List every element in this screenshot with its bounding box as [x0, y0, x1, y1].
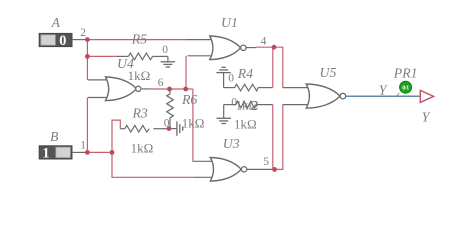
svg-text:Y: Y	[422, 110, 431, 125]
svg-text:R3: R3	[132, 105, 148, 120]
svg-text:6: 6	[158, 77, 164, 89]
node 6 junction U1 branch	[183, 87, 188, 92]
input switch A	[39, 33, 85, 49]
value 1k ohm R5	[128, 68, 151, 83]
label R2 overlapping	[251, 98, 258, 113]
wire B junction up to R3 jog	[112, 120, 120, 152]
wire node 5 left vertical to R2	[272, 105, 274, 170]
wire B junction down to U3 input	[112, 152, 194, 177]
op: NOR gate U5	[283, 84, 346, 108]
value 1k ohm R3	[131, 141, 154, 156]
probe arrow triangle	[420, 90, 433, 102]
svg-text:0: 0	[162, 44, 168, 56]
wire node 4 jog to U5 input	[274, 47, 283, 87]
label Y below probe	[422, 110, 431, 125]
ground net label 0	[164, 117, 170, 129]
label U3	[223, 136, 240, 151]
node 6 junction R6	[167, 87, 172, 92]
svg-text:U3: U3	[223, 136, 240, 151]
resistor R5	[117, 53, 168, 60]
svg-text:0: 0	[59, 33, 66, 49]
op: NOR gate U4	[88, 77, 151, 101]
svg-text:1kΩ: 1kΩ	[182, 115, 205, 130]
wire node 4	[256, 46, 275, 48]
value 1k ohm R2	[234, 117, 257, 132]
wire node 2 vertical to U4 input	[86, 40, 88, 80]
svg-text:1kΩ: 1kΩ	[131, 141, 154, 156]
wire B run to junction	[85, 151, 112, 153]
svg-text:1: 1	[80, 139, 86, 151]
node 2 junction A	[85, 37, 90, 42]
label A	[51, 15, 61, 30]
op: NOR gate U1	[186, 36, 256, 60]
svg-text:R5: R5	[131, 32, 147, 47]
node 4 junction	[272, 45, 277, 50]
ground for R5	[161, 56, 175, 67]
svg-text:1kΩ: 1kΩ	[234, 117, 257, 132]
svg-text:PR1: PR1	[393, 66, 418, 81]
wire node 2 horizontal to U1	[87, 39, 186, 41]
svg-text:R6: R6	[181, 92, 197, 107]
node 2 junction B	[85, 54, 90, 59]
svg-text:R4: R4	[237, 66, 253, 81]
label R6	[181, 92, 197, 107]
node label 4	[261, 36, 267, 48]
node 1 junction A	[85, 150, 90, 155]
svg-text:B: B	[50, 129, 59, 144]
svg-text:1: 1	[42, 146, 49, 162]
wire node 6 from U4 output	[151, 88, 193, 90]
wire node 6 down branch to U3	[193, 89, 194, 161]
svg-text:2: 2	[80, 27, 86, 39]
wire node 4 left vertical to R4	[272, 47, 274, 87]
node label 2	[80, 27, 86, 39]
op: NOR gate U3	[194, 158, 272, 182]
value 1k ohm R4 overlapping	[236, 97, 259, 112]
node label 5	[263, 156, 269, 168]
svg-text:0: 0	[164, 117, 170, 129]
junction R3 R6 ground	[167, 126, 172, 131]
wire node 2 branch to R5	[87, 55, 117, 57]
label R5	[131, 32, 147, 47]
label R4	[237, 66, 253, 81]
svg-text:4: 4	[261, 36, 267, 48]
resistor R3	[120, 125, 167, 132]
ground net label 0	[231, 96, 237, 108]
node label 6	[158, 77, 164, 89]
svg-text:U4: U4	[117, 56, 134, 71]
ground rotated for R3 R6	[171, 121, 183, 135]
node 1 junction B	[110, 150, 115, 155]
svg-text:Y: Y	[379, 82, 388, 97]
ground net label 0	[228, 72, 234, 84]
ground net label 0	[162, 44, 168, 56]
svg-text:U5: U5	[320, 65, 337, 80]
resistor R6 vertical	[167, 89, 174, 129]
node 5 junction	[272, 167, 277, 172]
svg-text:0/1: 0/1	[402, 85, 409, 91]
label B	[50, 129, 59, 144]
svg-text:0: 0	[231, 96, 237, 108]
wire output Y blue	[346, 95, 420, 97]
wire node 5 jog to U5 input	[275, 105, 283, 170]
wire node 6 up branch to U1	[185, 56, 187, 89]
resistor R2	[224, 101, 273, 108]
probe PR1	[396, 81, 411, 96]
ground inverted for R4	[216, 67, 230, 87]
svg-text:0: 0	[228, 72, 234, 84]
resistor R4	[224, 84, 273, 91]
label U4	[117, 56, 134, 71]
svg-text:U1: U1	[221, 15, 238, 30]
node label 1	[80, 139, 86, 151]
ground for R2	[217, 105, 231, 124]
label U1	[221, 15, 238, 30]
label U5	[320, 65, 337, 80]
label Y on wire	[379, 82, 388, 97]
svg-text:A: A	[51, 15, 61, 30]
label PR1	[393, 66, 418, 81]
value 1k ohm R6	[182, 115, 205, 130]
label R3	[132, 105, 148, 120]
wire B up to U4 input	[86, 98, 88, 153]
svg-text:5: 5	[263, 156, 269, 168]
input switch B	[39, 146, 85, 162]
